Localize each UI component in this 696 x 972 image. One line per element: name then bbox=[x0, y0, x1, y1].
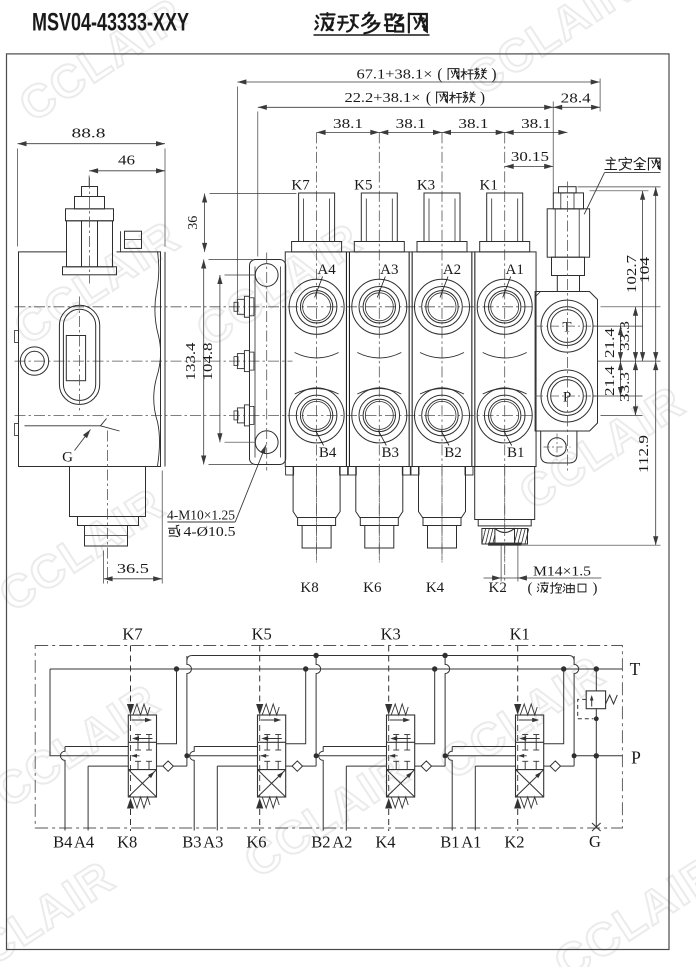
svg-text:A2: A2 bbox=[332, 833, 352, 852]
svg-text:K6: K6 bbox=[246, 833, 266, 852]
svg-text:36.5: 36.5 bbox=[117, 562, 149, 577]
svg-text:112.9: 112.9 bbox=[636, 435, 651, 473]
svg-text:104.8: 104.8 bbox=[201, 343, 216, 381]
svg-text:K2: K2 bbox=[504, 833, 524, 852]
svg-text:K8: K8 bbox=[300, 580, 318, 596]
svg-text:K8: K8 bbox=[117, 833, 137, 852]
svg-text:(: ( bbox=[437, 66, 442, 83]
svg-text:133.4: 133.4 bbox=[184, 343, 199, 381]
svg-text:K5: K5 bbox=[354, 178, 372, 194]
svg-text:104: 104 bbox=[637, 257, 652, 283]
svg-text:B3: B3 bbox=[382, 445, 400, 461]
svg-text:): ) bbox=[593, 581, 598, 597]
svg-text:38.1: 38.1 bbox=[333, 117, 363, 132]
svg-text:B3: B3 bbox=[182, 833, 201, 852]
svg-text:A2: A2 bbox=[443, 262, 461, 278]
svg-text:K7: K7 bbox=[291, 178, 310, 194]
svg-text:22.2+38.1×: 22.2+38.1× bbox=[345, 91, 421, 106]
svg-text:B4: B4 bbox=[319, 445, 337, 461]
svg-text:K2: K2 bbox=[489, 580, 507, 596]
svg-text:M14×1.5: M14×1.5 bbox=[533, 565, 591, 580]
svg-text:88.8: 88.8 bbox=[72, 127, 106, 142]
svg-text:A1: A1 bbox=[461, 833, 481, 852]
svg-text:38.1: 38.1 bbox=[521, 117, 551, 132]
svg-text:B2: B2 bbox=[444, 445, 462, 461]
svg-text:33.3: 33.3 bbox=[617, 321, 632, 351]
svg-text:B2: B2 bbox=[311, 833, 330, 852]
svg-text:B1: B1 bbox=[507, 445, 525, 461]
svg-text:4-Ø10.5: 4-Ø10.5 bbox=[184, 525, 236, 540]
svg-text:B4: B4 bbox=[53, 833, 72, 852]
svg-text:36: 36 bbox=[186, 216, 201, 230]
svg-text:T: T bbox=[630, 659, 641, 679]
svg-text:67.1+38.1×: 67.1+38.1× bbox=[357, 68, 433, 83]
svg-text:K3: K3 bbox=[381, 625, 401, 644]
svg-text:28.4: 28.4 bbox=[561, 92, 591, 107]
svg-text:MSV04-43333-XXY: MSV04-43333-XXY bbox=[32, 9, 189, 37]
svg-text:B1: B1 bbox=[440, 833, 459, 852]
svg-text:A4: A4 bbox=[317, 262, 336, 278]
svg-text:K6: K6 bbox=[363, 580, 382, 596]
svg-text:): ) bbox=[491, 66, 496, 83]
svg-text:30.15: 30.15 bbox=[511, 150, 549, 165]
svg-text:46: 46 bbox=[118, 154, 135, 169]
svg-text:A1: A1 bbox=[506, 262, 524, 278]
svg-text:K4: K4 bbox=[426, 580, 445, 596]
svg-text:A3: A3 bbox=[380, 262, 398, 278]
svg-text:G: G bbox=[589, 832, 601, 851]
svg-text:G: G bbox=[62, 450, 73, 466]
svg-text:K7: K7 bbox=[122, 625, 142, 644]
svg-text:K4: K4 bbox=[375, 833, 395, 852]
svg-text:): ) bbox=[480, 89, 485, 106]
svg-text:4-M10×1.25: 4-M10×1.25 bbox=[167, 509, 235, 524]
svg-text:A4: A4 bbox=[74, 833, 94, 852]
svg-text:K1: K1 bbox=[480, 178, 498, 194]
svg-text:(: ( bbox=[528, 581, 533, 597]
svg-text:38.1: 38.1 bbox=[396, 117, 426, 132]
svg-text:K1: K1 bbox=[510, 625, 530, 644]
svg-text:21.4: 21.4 bbox=[602, 328, 617, 358]
svg-text:38.1: 38.1 bbox=[458, 117, 488, 132]
svg-text:A3: A3 bbox=[203, 833, 223, 852]
svg-text:P: P bbox=[631, 748, 641, 768]
svg-text:(: ( bbox=[426, 89, 431, 106]
svg-text:33.3: 33.3 bbox=[617, 372, 632, 402]
svg-text:21.4: 21.4 bbox=[602, 366, 617, 396]
svg-text:K5: K5 bbox=[252, 625, 272, 644]
svg-text:K3: K3 bbox=[417, 178, 435, 194]
